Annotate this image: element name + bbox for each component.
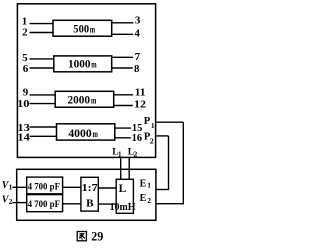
svg-text:4: 4 (134, 28, 140, 40)
svg-text:L: L (119, 183, 127, 195)
svg-text:E: E (140, 178, 147, 189)
svg-text:6: 6 (23, 63, 29, 75)
svg-text:1: 1 (118, 150, 122, 159)
wire C1 to transformer (63, 186, 81, 188)
wire pin 9 (30, 94, 56, 96)
wire pin 14 (30, 135, 57, 137)
svg-text:10mH: 10mH (110, 202, 136, 213)
svg-text:1: 1 (151, 121, 155, 130)
wire pin 7 (112, 56, 133, 58)
wire pin 13 (30, 126, 57, 128)
inductor box L (116, 179, 133, 213)
wire terminal P2 horizontal (156, 135, 169, 137)
svg-text:9: 9 (23, 87, 29, 99)
wire pin 12 (114, 105, 133, 107)
svg-text:2000: 2000 (67, 92, 90, 106)
svg-text:m: m (91, 95, 97, 105)
svg-text:14: 14 (17, 132, 30, 144)
svg-text:2: 2 (22, 26, 28, 38)
wire pin 11 (114, 94, 134, 96)
wire V2 (12, 202, 26, 204)
svg-text:2: 2 (9, 197, 13, 206)
bottom box equalizer section (17, 169, 156, 220)
svg-text:m: m (91, 60, 97, 70)
svg-text:4 700 pF: 4 700 pF (28, 199, 61, 209)
svg-text:m: m (93, 129, 99, 139)
delay line box 2000m (55, 91, 113, 107)
outer box repeater section (17, 4, 155, 158)
svg-text:B: B (86, 198, 94, 210)
svg-text:2: 2 (134, 150, 138, 159)
wire E1 (156, 189, 169, 191)
wire transformer to L upper (98, 187, 116, 189)
svg-text:11: 11 (135, 87, 146, 99)
svg-text:8: 8 (134, 63, 140, 75)
wire C2 to transformer (63, 203, 81, 205)
wire L2 vertical (128, 157, 130, 180)
svg-text:1: 1 (147, 181, 151, 190)
svg-text:1: 1 (9, 183, 13, 192)
svg-text:4000: 4000 (68, 126, 91, 140)
svg-text:1:7: 1:7 (82, 182, 99, 194)
wire L1 vertical (120, 157, 122, 180)
svg-text:3: 3 (135, 14, 141, 26)
wire pin 15 (115, 127, 131, 129)
wire pin 2 (30, 32, 54, 34)
svg-text:29: 29 (91, 229, 103, 243)
svg-text:12: 12 (134, 98, 147, 110)
wire transformer to L lower (98, 203, 116, 205)
wire pin 3 (112, 22, 134, 24)
capacitor box C2 4700pF (27, 195, 63, 212)
delay line box 4000m (57, 124, 115, 140)
svg-text:E: E (140, 193, 147, 204)
capacitor box C1 4700pF (27, 177, 63, 194)
wire pin 16 (115, 137, 131, 139)
svg-text:2: 2 (147, 196, 151, 205)
wire E2 (156, 203, 184, 205)
wire pin 8 (112, 67, 133, 69)
delay line box 1000m (54, 56, 112, 72)
wire terminal P1 horizontal (156, 121, 184, 123)
svg-text:7: 7 (135, 51, 141, 63)
svg-text:1000: 1000 (68, 57, 91, 71)
wire pin 5 (30, 58, 54, 60)
svg-text:P: P (144, 116, 151, 127)
wire pin 10 (30, 103, 56, 105)
wire pin 4 (112, 33, 133, 35)
svg-text:10: 10 (17, 98, 30, 110)
svg-text:2: 2 (150, 137, 154, 146)
delay line box 500m (53, 20, 112, 36)
wire pin 6 (30, 67, 54, 69)
svg-text:500: 500 (73, 22, 89, 36)
wire terminal P2 vertical to E1 (168, 136, 170, 190)
svg-text:4 700 pF: 4 700 pF (28, 182, 61, 192)
transformer box 1:7 B (81, 177, 98, 211)
svg-text:16: 16 (132, 132, 143, 144)
wire terminal P1 vertical to E2 (182, 122, 184, 204)
wire V1 (12, 186, 26, 188)
wire pin 1 (30, 23, 54, 25)
caption ideograph tu (figure) (77, 232, 86, 241)
svg-text:m: m (90, 25, 96, 35)
